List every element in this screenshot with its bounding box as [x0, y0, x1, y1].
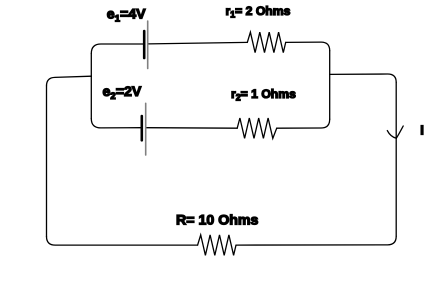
- battery e2: [142, 103, 146, 155]
- wire outer left vertical: [46, 86, 48, 237]
- battery e1: [144, 21, 148, 69]
- resistor r1: [247, 32, 285, 52]
- svg-text:e2=2V: e2=2V: [103, 84, 142, 102]
- wire bottom-left corner to resistor R: [47, 237, 198, 246]
- wire inner right vertical: [329, 51, 331, 120]
- wire bottom-right corner to resistor r2: [277, 119, 330, 128]
- svg-text:R= 10 Ohms: R= 10 Ohms: [176, 213, 259, 229]
- wire outer top-left stub: [47, 76, 92, 86]
- wire outer top-right stub: [330, 74, 397, 82]
- svg-text:r1= 2 Ohms: r1= 2 Ohms: [226, 4, 291, 20]
- wire battery e1 to resistor r1: [149, 42, 247, 44]
- wire resistor r2 to battery e2: [147, 127, 238, 130]
- wire top branch left lead with corner: [91, 44, 143, 54]
- resistor r2: [237, 118, 277, 138]
- svg-text:I: I: [420, 123, 424, 138]
- resistor R: [198, 235, 236, 255]
- wire outer right vertical: [395, 82, 397, 236]
- wire resistor R to bottom-right corner: [236, 236, 396, 245]
- wire inner left vertical: [90, 54, 92, 119]
- current arrow: [387, 126, 403, 138]
- node junction left: [90, 75, 92, 77]
- wire resistor r1 to top-right corner: [286, 42, 330, 51]
- wire battery e2 to bottom-left corner: [91, 119, 140, 128]
- svg-text:r2= 1 Ohms: r2= 1 Ohms: [231, 87, 296, 103]
- svg-text:e1=4V: e1=4V: [107, 7, 146, 25]
